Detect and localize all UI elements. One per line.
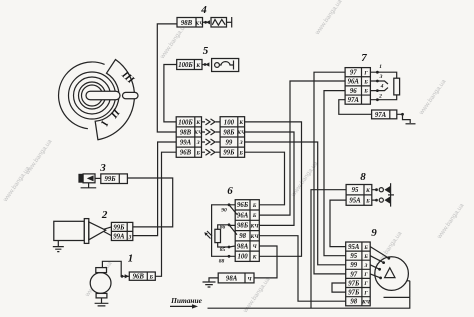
svg-text:Г: Г xyxy=(363,281,368,287)
ring 3 xyxy=(79,82,106,109)
svg-text:96Б: 96Б xyxy=(237,202,249,209)
connector block left half xyxy=(176,117,203,158)
svg-text:З: З xyxy=(128,234,132,240)
contact pin4 xyxy=(377,88,388,91)
svg-text:100: 100 xyxy=(237,254,248,261)
connector 98В of lamp 4 xyxy=(177,18,204,28)
horn 2 xyxy=(53,219,112,252)
mating arrows row2 xyxy=(202,129,221,135)
node dot item5 xyxy=(204,63,207,66)
svg-text:Б: Б xyxy=(365,198,370,204)
svg-text:Ч: Ч xyxy=(247,276,252,282)
svg-text:97: 97 xyxy=(350,70,357,77)
svg-text:95А: 95А xyxy=(348,244,360,251)
svg-text:3: 3 xyxy=(99,162,106,174)
switch column drawing xyxy=(59,60,138,140)
relay 6 connector table xyxy=(235,200,259,262)
mating arrows row3 xyxy=(202,139,221,145)
wire 97А row to lower connector xyxy=(339,100,372,115)
svg-text:Б: Б xyxy=(252,213,257,219)
wire net 95 repeater row1 to power line xyxy=(311,190,346,309)
svg-text:КЧ: КЧ xyxy=(250,234,260,240)
wire net 97 switch7 row1 to cluster row4 xyxy=(314,72,346,274)
svg-text:99А: 99А xyxy=(180,139,192,146)
power arrow xyxy=(170,305,193,307)
cluster 9 connector table xyxy=(346,242,371,306)
svg-text:99: 99 xyxy=(350,262,357,269)
svg-text:8: 8 xyxy=(360,171,366,183)
switch 7 pins xyxy=(370,64,399,101)
wire net 96А switch7 row2 to relay row2 xyxy=(259,81,345,215)
svg-text:99Б: 99Б xyxy=(104,176,116,183)
wire switch3 to connector xyxy=(95,177,101,179)
arrow item5 xyxy=(205,62,209,66)
mating arrows row1 xyxy=(202,119,221,155)
svg-text:97А: 97А xyxy=(348,97,360,104)
svg-text:Г: Г xyxy=(363,70,368,76)
svg-text:7: 7 xyxy=(361,52,367,64)
brake switch 3 symbol xyxy=(78,174,96,188)
mating arrows row4 xyxy=(202,149,221,155)
svg-text:98: 98 xyxy=(239,233,246,240)
ground connector 98А xyxy=(203,273,255,287)
switch 7 connector table xyxy=(345,68,370,105)
svg-text:96: 96 xyxy=(350,88,357,95)
wire item5 feed from node 100Б to table row1 xyxy=(164,65,177,122)
svg-text:Б: Б xyxy=(363,254,368,260)
svg-text:4: 4 xyxy=(380,84,384,90)
svg-text:100: 100 xyxy=(224,119,235,126)
motor 1 xyxy=(90,268,111,306)
svg-text:9: 9 xyxy=(371,227,377,239)
svg-text:4: 4 xyxy=(200,4,207,16)
wire item4 feed from node 98В to table row2 xyxy=(157,24,177,132)
wire net 95А repeater row2 to cluster row1 xyxy=(330,200,346,247)
svg-text:З: З xyxy=(239,140,243,146)
svg-text:96В: 96В xyxy=(133,274,145,281)
svg-text:2: 2 xyxy=(101,209,108,221)
svg-text:Б: Б xyxy=(252,203,257,209)
svg-text:Питание: Питание xyxy=(170,296,203,305)
svg-text:99А: 99А xyxy=(113,234,125,241)
svg-text:2: 2 xyxy=(378,94,382,100)
outer loop pin 88 xyxy=(212,205,236,256)
contact blade pin 86 xyxy=(229,225,237,235)
node dot item4 xyxy=(204,21,207,24)
connector 97А xyxy=(372,110,397,119)
ground switch 7 xyxy=(397,113,416,124)
svg-text:95А: 95А xyxy=(349,198,361,205)
wire net 98А relay row5 to ground box xyxy=(254,246,277,278)
svg-text:КЧ: КЧ xyxy=(236,130,246,136)
svg-text:5: 5 xyxy=(203,45,209,57)
svg-text:99: 99 xyxy=(226,139,233,146)
ring 1 xyxy=(69,72,116,119)
svg-text:КЧ: КЧ xyxy=(361,299,371,305)
wire power feed line xyxy=(208,297,410,308)
svg-text:Ч: Ч xyxy=(252,244,257,250)
cluster lead row1 xyxy=(370,247,389,259)
svg-text:З: З xyxy=(364,263,368,269)
wire net 100 right table row1 to relay row6 xyxy=(245,122,302,256)
svg-text:97А: 97А xyxy=(375,112,387,119)
cluster lead row3 xyxy=(370,265,379,270)
svg-text:98А: 98А xyxy=(237,243,249,250)
svg-text:3: 3 xyxy=(379,74,383,80)
wire table row3 99А down to horn connector xyxy=(133,142,176,236)
contact pin3 xyxy=(377,81,388,84)
svg-text:Б: Б xyxy=(363,89,368,95)
svg-text:95: 95 xyxy=(350,253,357,260)
connector 99Б of switch 3 xyxy=(101,174,128,184)
svg-text:1: 1 xyxy=(379,64,382,70)
svg-text:Б: Б xyxy=(363,79,368,85)
svg-text:Б: Б xyxy=(363,245,368,251)
wire net 98 relay row4 to cluster row7 xyxy=(259,236,345,302)
connector 96В of motor 1 xyxy=(129,272,155,281)
svg-text:З: З xyxy=(196,140,200,146)
wire table row4 96В down to motor connector xyxy=(155,152,176,276)
svg-text:КЧ: КЧ xyxy=(193,130,203,136)
svg-text:КЧ: КЧ xyxy=(250,224,260,230)
lamp symbols 8 xyxy=(372,183,394,206)
svg-text:98Б: 98Б xyxy=(237,223,249,230)
ring 4 xyxy=(82,85,103,106)
arrow item1 xyxy=(125,274,129,278)
connector block right half xyxy=(220,117,246,158)
lever xyxy=(86,91,120,100)
wire jumper cluster rows5-6 xyxy=(332,283,346,292)
relay 6 internals xyxy=(204,203,237,264)
svg-text:98В: 98В xyxy=(181,20,193,27)
cluster 9 housing xyxy=(370,247,410,298)
svg-text:100Б: 100Б xyxy=(178,119,193,126)
relay coil xyxy=(215,229,221,242)
ground motor xyxy=(95,298,109,306)
svg-text:Г: Г xyxy=(363,272,368,278)
resistor 7 xyxy=(394,78,400,95)
cluster lead row2 xyxy=(370,256,383,263)
svg-text:98Б: 98Б xyxy=(223,129,235,136)
svg-text:98: 98 xyxy=(350,299,357,306)
sector plate xyxy=(95,60,134,140)
repeater lamps 8 connector xyxy=(346,185,372,206)
svg-text:Б: Б xyxy=(238,150,243,156)
svg-text:Б: Б xyxy=(148,274,153,280)
svg-text:98А: 98А xyxy=(226,276,238,283)
wire net 99 right table row3 to cluster row3 xyxy=(245,142,346,265)
svg-text:99Б: 99Б xyxy=(223,150,235,157)
svg-text:98В: 98В xyxy=(180,129,192,136)
svg-text:85: 85 xyxy=(220,247,226,253)
svg-text:Г: Г xyxy=(363,290,368,296)
ring 2 xyxy=(74,77,111,114)
wire switch 3 loop to horn connector row1 xyxy=(127,178,172,227)
svg-text:1: 1 xyxy=(128,253,134,265)
outer body C-shape xyxy=(59,62,105,129)
lamp 4 resistor element xyxy=(203,17,232,28)
svg-text:96В: 96В xyxy=(180,150,192,157)
svg-text:97Б: 97Б xyxy=(348,280,360,287)
svg-text:96А: 96А xyxy=(237,212,249,219)
svg-text:95: 95 xyxy=(352,187,359,194)
svg-text:99Б: 99Б xyxy=(113,225,125,232)
actuation arrow xyxy=(206,231,213,239)
svg-text:96А: 96А xyxy=(348,79,360,86)
wire motor to connector box xyxy=(102,261,129,276)
node dot item1 xyxy=(121,275,124,278)
wire net 96 switch7 row3 to cluster row2 xyxy=(324,91,346,256)
ground horn xyxy=(53,241,64,252)
svg-text:6: 6 xyxy=(227,185,233,197)
svg-text:88: 88 xyxy=(219,259,225,265)
svg-text:97Б: 97Б xyxy=(348,290,360,297)
wire net 99Б right table row4 to relay row1 xyxy=(245,152,285,205)
arrow item4 xyxy=(206,20,210,24)
connector of horn 2 xyxy=(111,222,132,240)
lever tip xyxy=(123,92,139,98)
wire net 98Б right table row2 to relay row3 xyxy=(245,132,294,225)
svg-text:Б: Б xyxy=(195,150,200,156)
contact blade pin 90 xyxy=(229,205,237,215)
svg-text:100Б: 100Б xyxy=(178,62,193,69)
svg-text:90: 90 xyxy=(221,208,227,214)
lighter 5 xyxy=(202,59,239,72)
connector 100Б of lighter 5 xyxy=(177,60,202,70)
cluster lead row4 xyxy=(370,274,380,278)
svg-text:97: 97 xyxy=(350,271,357,278)
